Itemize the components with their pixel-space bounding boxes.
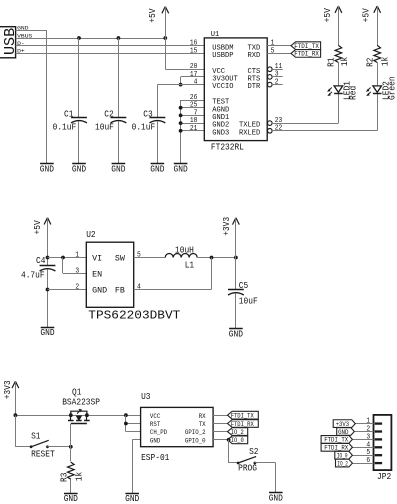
node junction VBUS-C2 <box>117 36 121 40</box>
svg-text:U2: U2 <box>86 230 95 240</box>
svg-text:C1: C1 <box>64 109 73 119</box>
USB connector J1 <box>0 27 16 58</box>
node junction +5V-VI <box>46 256 50 260</box>
wire +5V to R2 <box>377 6 379 45</box>
svg-text:GND: GND <box>150 165 164 175</box>
wire RST/CH_PD tie <box>125 415 127 431</box>
wire +5V to C4/VI <box>47 218 49 266</box>
transistor Q1 BSA223SP <box>69 413 73 417</box>
node junction GPIO_0-S2 <box>227 438 231 442</box>
wire TXLED to LED1 <box>272 123 338 125</box>
svg-text:VCCIO: VCCIO <box>212 83 234 91</box>
svg-text:1k: 1k <box>381 57 391 66</box>
net flag IO_0 at JP2 <box>335 451 353 459</box>
wire RXLED to LED2 <box>272 130 377 132</box>
svg-text:5: 5 <box>137 252 141 260</box>
svg-text:DTR: DTR <box>248 83 261 91</box>
capacitor C3 <box>150 117 166 119</box>
switch S1 RESET <box>30 445 33 448</box>
svg-text:10uF: 10uF <box>239 296 258 306</box>
svg-text:+3V3: +3V3 <box>3 380 13 399</box>
LED LED2 <box>373 86 382 92</box>
net flag IO_0 at U3 <box>228 436 248 444</box>
svg-text:4.7uF: 4.7uF <box>21 270 45 280</box>
JP2 pin contact 4 <box>375 446 382 448</box>
node junction VCC-RST <box>124 413 128 417</box>
ground symbol S2 <box>269 492 283 494</box>
node junction RST <box>124 422 128 426</box>
svg-text:Red: Red <box>349 86 359 100</box>
svg-text:1: 1 <box>75 252 79 260</box>
wire JP2 pin 3 <box>352 439 373 441</box>
net flag IO_2 at JP2 <box>336 459 353 467</box>
svg-text:GND: GND <box>269 494 283 504</box>
svg-text:21: 21 <box>190 125 198 133</box>
svg-text:FTDI_RX: FTDI_RX <box>324 445 348 452</box>
wire 3V3OUT to VCCIO <box>181 76 205 78</box>
node junction S1-R3-gate <box>69 445 73 449</box>
net flag FTDI_RX at U3 <box>228 420 259 428</box>
module U3 ESP-01 box <box>141 407 214 446</box>
wire GPIO_0 down to S2 <box>228 440 230 463</box>
svg-text:GPIO_2: GPIO_2 <box>185 429 206 436</box>
net flag FTDI_TX at U1 <box>291 42 321 50</box>
wire JP2 pin 2 <box>354 431 373 433</box>
resistor R1 <box>335 45 342 62</box>
svg-text:22: 22 <box>275 125 283 133</box>
svg-text:FTDI_TX: FTDI_TX <box>324 437 348 444</box>
net flag FTDI_RX at U1 <box>291 50 321 58</box>
Q1 gate bar <box>71 423 87 425</box>
svg-text:GND: GND <box>40 328 54 338</box>
svg-text:ESP-01: ESP-01 <box>141 453 169 463</box>
svg-text:1k: 1k <box>340 57 350 66</box>
ground symbol R3 <box>64 493 78 495</box>
wire JP2 pin 1 <box>355 423 373 425</box>
node junction GND-C4 <box>46 288 50 292</box>
switch S2 PROG <box>237 462 240 465</box>
node junction rail-S1 <box>14 413 18 417</box>
svg-text:GND: GND <box>40 165 54 175</box>
wire VBUS net +5V horizontal <box>16 38 166 40</box>
wire U3 GPIO_0 <box>213 439 229 441</box>
svg-text:C4: C4 <box>36 256 45 266</box>
svg-text:VI: VI <box>92 255 102 264</box>
svg-text:+5V: +5V <box>33 220 43 235</box>
svg-text:FTDI_TX: FTDI_TX <box>231 413 254 420</box>
U1 pin RXD wire <box>267 53 291 55</box>
U1 pin TXLED bubble <box>268 121 273 126</box>
wire JP2 pin 5 <box>352 455 373 457</box>
wire +3V3 down to C5 <box>235 218 237 258</box>
wire +5V down to VCC <box>165 7 167 70</box>
power +3V3 arrow middle <box>233 218 236 225</box>
svg-text:GND: GND <box>111 165 125 175</box>
JP2 pin contact 3 <box>375 438 382 440</box>
capacitor C5 <box>228 289 244 291</box>
svg-text:2: 2 <box>75 284 79 292</box>
svg-text:GND: GND <box>125 494 139 504</box>
svg-text:JP2: JP2 <box>377 472 391 482</box>
svg-text:FTDI_RX: FTDI_RX <box>294 51 319 58</box>
ground symbol C5 <box>229 328 243 330</box>
ground symbol U3 <box>125 493 139 495</box>
svg-text:0.1uF: 0.1uF <box>53 122 77 132</box>
ground symbol U1 grounds <box>174 163 188 165</box>
svg-text:U3: U3 <box>141 392 150 402</box>
wire U3 RX <box>213 415 229 417</box>
LED LED1 <box>334 86 343 92</box>
U1 pin CTS bubble and stub <box>268 67 273 72</box>
U1 pin TXD wire <box>267 45 291 47</box>
svg-text:+5V: +5V <box>148 8 158 23</box>
JP2 pin contact 6 <box>375 462 382 464</box>
svg-text:10uH: 10uH <box>175 245 194 255</box>
wire R1 to LED1 <box>338 63 340 86</box>
node junction GND3 <box>179 129 183 133</box>
wire VI to U2 <box>48 257 87 259</box>
svg-text:4: 4 <box>366 441 370 449</box>
power +3V3 arrow bottom <box>12 381 15 388</box>
svg-text:PROG: PROG <box>238 464 257 474</box>
wire D- to U1 USBDM <box>16 45 205 47</box>
svg-text:CH_PD: CH_PD <box>150 429 167 436</box>
svg-text:R1: R1 <box>327 58 337 67</box>
wire +5V to R1 <box>338 6 340 45</box>
node junction AGND <box>179 106 183 110</box>
inductor L1 <box>165 254 197 258</box>
svg-text:+3V3: +3V3 <box>222 217 232 236</box>
node junction GND1 <box>179 114 183 118</box>
net flag FTDI_TX at U3 <box>228 411 259 419</box>
ground symbol C1 <box>72 163 86 165</box>
svg-text:USBDP: USBDP <box>212 52 233 60</box>
wire node to C5 <box>235 258 237 290</box>
capacitor C4 <box>40 265 56 267</box>
svg-text:R2: R2 <box>365 58 375 67</box>
svg-text:2: 2 <box>275 78 279 86</box>
node junction VBUS-C1 <box>77 36 81 40</box>
net flag FTDI_RX at JP2 <box>321 443 352 451</box>
wire Q1 gate down <box>70 424 72 447</box>
IC U1 FT232RL box <box>204 38 267 141</box>
node junction GND2 <box>179 121 183 125</box>
wire SW to L1 <box>134 257 166 259</box>
power +5V arrow middle <box>44 218 47 225</box>
svg-text:TPS62203DBVT: TPS62203DBVT <box>88 310 180 323</box>
svg-text:FTDI_TX: FTDI_TX <box>294 43 319 50</box>
node junction 3V3OUT-VCCIO <box>179 83 183 87</box>
svg-text:RST: RST <box>150 421 160 428</box>
U1 pin RTS bubble and stub <box>268 75 273 80</box>
svg-text:S2: S2 <box>249 447 258 457</box>
JP2 pin contact 5 <box>375 454 382 456</box>
svg-text:4: 4 <box>137 284 141 292</box>
ground symbol C3 <box>151 163 165 165</box>
svg-text:RXLED: RXLED <box>239 129 261 137</box>
svg-text:3: 3 <box>75 267 79 275</box>
wire JP2 pin 4 <box>352 447 373 449</box>
svg-text:FB: FB <box>115 287 125 296</box>
resistor R3 <box>70 447 72 462</box>
svg-text:Green: Green <box>388 76 397 100</box>
wire D+ to U1 USBDP <box>16 53 205 55</box>
wire VCCIO to C3 <box>157 84 204 86</box>
svg-text:IO_2: IO_2 <box>337 460 348 467</box>
svg-text:GND: GND <box>229 329 243 339</box>
node junction L1 out <box>234 256 238 260</box>
svg-text:C5: C5 <box>239 281 248 291</box>
power +5V arrow near U1 <box>162 7 165 14</box>
resistor R2 <box>374 45 381 62</box>
svg-text:GND: GND <box>92 287 107 296</box>
net flag GND at JP2 <box>337 428 355 436</box>
wire TEST/AGND/GND1/GND2/GND3 to ground <box>181 100 205 102</box>
wire S2 to ground <box>255 462 276 464</box>
svg-text:Q1: Q1 <box>72 387 81 397</box>
svg-text:0.1uF: 0.1uF <box>132 122 156 132</box>
svg-text:C2: C2 <box>104 109 113 119</box>
net flag FTDI_TX at JP2 <box>321 436 352 444</box>
svg-text:+5V: +5V <box>323 8 333 23</box>
JP2 pin contact 1 <box>375 422 382 424</box>
svg-text:GND: GND <box>150 437 160 444</box>
wire L1 to +3V3 node <box>197 257 236 259</box>
svg-text:GPIO_0: GPIO_0 <box>185 437 206 444</box>
ground symbol at USB <box>40 163 54 165</box>
svg-text:IO_0: IO_0 <box>231 437 244 444</box>
svg-text:FT232RL: FT232RL <box>211 142 244 152</box>
wire C4 to ground <box>47 269 49 327</box>
wire U3 GPIO_2 <box>213 431 229 433</box>
node junction FB tap <box>210 256 214 260</box>
power +5V arrow above R2 <box>374 6 377 13</box>
net flag IO_2 at U3 <box>228 428 248 436</box>
svg-text:C3: C3 <box>143 109 152 119</box>
wire EN jog <box>63 273 86 275</box>
svg-text:1: 1 <box>366 418 370 426</box>
svg-text:VCC: VCC <box>150 413 160 420</box>
wire R2 to LED2 <box>377 63 379 86</box>
ground symbol C4 <box>41 327 55 329</box>
svg-text:GND: GND <box>72 165 86 175</box>
svg-text:1k: 1k <box>74 472 84 481</box>
svg-text:GND3: GND3 <box>212 129 229 137</box>
svg-text:TX: TX <box>199 421 206 428</box>
wire S1 to R3 node <box>48 446 71 448</box>
wire JP2 pin 6 <box>352 463 373 465</box>
U1 pin RXLED bubble <box>268 129 273 134</box>
wire U2 GND pin <box>48 289 87 291</box>
svg-text:+5V: +5V <box>362 8 372 23</box>
svg-text:GND: GND <box>174 165 188 175</box>
svg-text:GND: GND <box>64 494 78 504</box>
svg-text:2: 2 <box>366 426 370 434</box>
svg-text:3: 3 <box>366 433 370 441</box>
svg-text:4: 4 <box>194 79 198 87</box>
svg-text:RXD: RXD <box>248 52 261 60</box>
wire +3V3 rail to Q1 and U3 <box>15 381 17 415</box>
ground symbol C2 <box>112 163 126 165</box>
svg-text:RX: RX <box>199 413 206 420</box>
wire U3 TX <box>213 423 229 425</box>
node junction VI-EN <box>61 256 65 260</box>
svg-text:BSA223SP: BSA223SP <box>62 398 100 408</box>
node junction VBUS-+5V <box>163 36 167 40</box>
header JP2 box <box>374 415 392 470</box>
svg-text:U1: U1 <box>211 31 220 39</box>
power +5V arrow above R1 <box>335 6 338 13</box>
svg-text:10uF: 10uF <box>95 122 114 132</box>
capacitor C2 <box>118 38 120 117</box>
wire FB feedback <box>134 289 212 291</box>
svg-text:RESET: RESET <box>31 449 55 459</box>
svg-text:SW: SW <box>115 255 125 264</box>
svg-text:15: 15 <box>190 47 198 55</box>
capacitor C1 <box>78 38 80 117</box>
wire USB GND to ground <box>16 30 47 32</box>
svg-text:GND: GND <box>338 429 349 436</box>
svg-text:L1: L1 <box>185 260 194 270</box>
wire C5 to ground <box>235 293 237 328</box>
svg-text:FTDI_RX: FTDI_RX <box>231 421 254 428</box>
svg-text:R3: R3 <box>59 473 69 482</box>
wire down to S1 <box>15 415 17 447</box>
svg-text:EN: EN <box>92 270 102 279</box>
U1 pin DTR bubble and stub <box>268 82 273 87</box>
svg-text:IO_0: IO_0 <box>337 453 348 460</box>
svg-text:+3V3: +3V3 <box>336 421 350 428</box>
svg-text:5: 5 <box>271 47 275 55</box>
voltage regulator U2 TPS62203 box <box>86 242 133 307</box>
wire R3 to ground <box>70 479 72 493</box>
JP2 pin contact 2 <box>375 430 382 432</box>
svg-text:IO_2: IO_2 <box>231 429 244 436</box>
net flag +3V3 at JP2 <box>333 420 355 428</box>
wire U3 GND to ground <box>132 439 140 441</box>
svg-text:S1: S1 <box>31 431 40 441</box>
